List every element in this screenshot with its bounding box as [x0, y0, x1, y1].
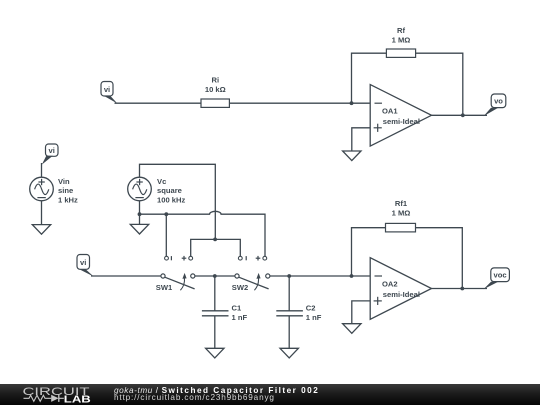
footer title text [114, 386, 319, 395]
CircuitLab logo [20, 385, 110, 406]
svg-text:1 nF: 1 nF [306, 313, 322, 322]
capacitor C1 [202, 276, 248, 348]
wire vi to SW1 [91, 275, 161, 277]
switch SW2 [232, 256, 270, 292]
node vi flag (top input) [101, 82, 118, 104]
node junction Vc bottom [138, 212, 142, 216]
svg-text:LAB: LAB [64, 394, 91, 405]
footer bar [0, 384, 540, 405]
wire vi to Ri [115, 102, 202, 104]
ground (OA1 non-inverting) [343, 151, 361, 161]
wire Vc top loop to control node [140, 164, 216, 239]
svg-text:1 nF: 1 nF [232, 313, 248, 322]
resistor Rf [386, 26, 415, 57]
svg-text:Ri: Ri [212, 76, 220, 85]
svg-text:voc: voc [494, 271, 507, 280]
svg-text:1 MΩ: 1 MΩ [392, 36, 411, 45]
wire flag to Vin [41, 163, 43, 177]
wire SW2 to OA2 inverting input [270, 275, 370, 277]
svg-text:Vc: Vc [157, 177, 166, 186]
resistor Ri [201, 76, 229, 108]
wire Ri to OA1 inverting input [229, 102, 370, 104]
wire ground bus with hop to SW2 plus terminal [140, 211, 266, 256]
voltage source Vc [128, 177, 186, 204]
wire branch to SW1 minus terminal [165, 214, 167, 256]
svg-text:semi-Ideal: semi-Ideal [383, 290, 420, 299]
svg-text:SW1: SW1 [156, 283, 173, 292]
svg-text:OA2: OA2 [382, 280, 398, 289]
node junction at OA2 output [460, 287, 464, 291]
svg-text:vi: vi [104, 85, 110, 94]
wire feedback right (down to output) [416, 53, 463, 115]
node junction control bus [213, 238, 217, 242]
resistor Rf1 [386, 199, 416, 232]
wire control bus SW1 plus to SW2 minus [191, 239, 241, 256]
wire feedback left (up from inverting node) [352, 53, 387, 103]
svg-text:10 kΩ: 10 kΩ [205, 85, 226, 94]
svg-text:vo: vo [494, 97, 503, 106]
svg-text:vi: vi [49, 146, 55, 155]
node vi flag (Vin source) [42, 144, 58, 165]
node junction at OA2 inverting input [350, 274, 354, 278]
wire OA1 output [432, 114, 488, 116]
wire Vc bottom [139, 201, 141, 214]
svg-text:OA1: OA1 [382, 107, 398, 116]
capacitor C2 [276, 276, 321, 348]
wire OA2 output [432, 288, 488, 290]
switch SW1 [156, 256, 195, 292]
svg-text:C1: C1 [232, 304, 242, 313]
ground (C1) [206, 348, 224, 358]
node junction C2 [287, 274, 291, 278]
svg-text:Rf: Rf [397, 26, 405, 35]
svg-text:vi: vi [80, 258, 86, 267]
wire feedback right (OA2) [416, 228, 463, 289]
svg-text:square: square [157, 186, 182, 195]
svg-text:100 kHz: 100 kHz [157, 195, 185, 204]
svg-text:Vin: Vin [58, 177, 70, 186]
op-amp OA1 [370, 85, 431, 147]
footer url text [114, 393, 275, 402]
voltage source Vin [30, 177, 78, 204]
svg-text:1 MΩ: 1 MΩ [392, 209, 411, 218]
node junction C1 [213, 274, 217, 278]
node junction at OA1 output [461, 113, 465, 117]
ground (OA2 non-inverting) [343, 324, 361, 334]
svg-text:C2: C2 [306, 304, 316, 313]
svg-text:Rf1: Rf1 [395, 199, 408, 208]
wire feedback left (OA2) [352, 228, 386, 276]
wire SW1 to SW2 [195, 275, 235, 277]
ground (Vin) [32, 225, 50, 235]
node voc flag [484, 268, 510, 289]
svg-text:semi-Ideal: semi-Ideal [383, 117, 420, 126]
op-amp OA2 [370, 258, 431, 320]
ground (C2) [280, 348, 298, 358]
node vo flag [484, 94, 506, 116]
node junction at OA1 inverting input [350, 101, 354, 105]
wire OA2 non-inverting to ground [352, 301, 370, 324]
node junction ground bus [164, 212, 168, 216]
ground (Vc) [139, 214, 141, 224]
node vi flag (switch input) [77, 255, 94, 277]
svg-text:sine: sine [58, 186, 73, 195]
wire OA1 non-inverting to ground [352, 128, 370, 151]
wire Vin to ground [41, 201, 43, 225]
svg-text:SW2: SW2 [232, 283, 248, 292]
svg-text:1 kHz: 1 kHz [58, 195, 78, 204]
